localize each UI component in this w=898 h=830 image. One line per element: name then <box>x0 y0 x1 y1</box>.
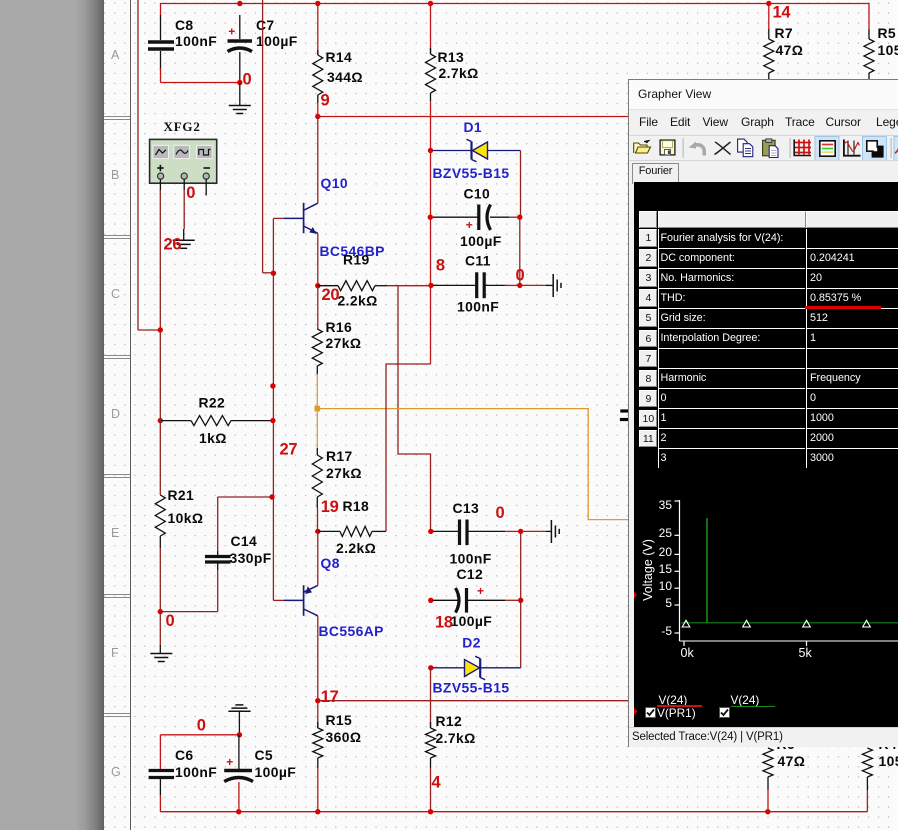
svg-text:330pF: 330pF <box>230 550 272 566</box>
resistor R21 <box>159 421 161 495</box>
svg-text:XFG2: XFG2 <box>164 119 201 134</box>
legend icon selected <box>815 136 839 160</box>
svg-text:18: 18 <box>435 614 453 632</box>
transistor Q10 <box>317 117 319 204</box>
overlap squares icon selected <box>863 136 887 160</box>
svg-text:105: 105 <box>878 42 898 58</box>
axes icon <box>844 139 861 155</box>
zener diode D1 <box>428 148 433 153</box>
svg-text:+: + <box>226 755 233 769</box>
svg-text:C14: C14 <box>231 533 258 549</box>
orange wire to grapher <box>317 409 628 520</box>
wire A R19 to C13 staircase <box>387 286 431 532</box>
capacitor C11 <box>428 283 433 288</box>
svg-text:100µF: 100µF <box>460 233 502 249</box>
svg-text:BC556AP: BC556AP <box>319 623 384 639</box>
svg-text:100nF: 100nF <box>175 764 217 780</box>
svg-text:Q10: Q10 <box>321 175 348 191</box>
svg-text:0: 0 <box>243 71 252 89</box>
junction top R14 <box>315 1 320 6</box>
svg-text:C12: C12 <box>457 566 484 582</box>
resistor R19 <box>318 285 338 287</box>
svg-text:C5: C5 <box>255 747 274 763</box>
wire R13 to D1 <box>430 101 432 151</box>
svg-text:C6: C6 <box>175 747 194 763</box>
svg-text:R15: R15 <box>326 712 353 728</box>
capacitor C8 <box>160 15 162 40</box>
junction top R7 <box>766 1 771 6</box>
XFG2 plus lead <box>159 179 161 190</box>
svg-text:BZV55-B15: BZV55-B15 <box>433 680 510 696</box>
svg-text:R7: R7 <box>775 25 794 41</box>
svg-text:R14: R14 <box>326 49 353 65</box>
svg-text:R5: R5 <box>878 25 897 41</box>
junction C7 bottom <box>237 80 242 85</box>
THD red underline <box>805 306 881 309</box>
ground right of C11 <box>520 284 546 286</box>
svg-text:+: + <box>477 584 484 598</box>
resistor R6 <box>763 748 773 777</box>
capacitor C14 <box>269 494 274 499</box>
wire C10-C11 right rail <box>519 217 521 285</box>
function generator XFG2 <box>150 139 217 183</box>
resistor R4 <box>862 748 872 777</box>
ground under C7 <box>239 83 241 106</box>
svg-text:17: 17 <box>321 688 339 706</box>
svg-text:+: + <box>466 218 473 232</box>
wire node 17 <box>315 698 320 703</box>
wire XFG plus down <box>159 190 161 421</box>
svg-text:1kΩ: 1kΩ <box>199 430 227 446</box>
grapher view window <box>628 79 898 747</box>
junction R22 right <box>270 418 275 423</box>
wire node 9 to grapher <box>318 116 628 118</box>
svg-text:27: 27 <box>280 441 298 459</box>
svg-text:0: 0 <box>186 184 195 202</box>
svg-text:105: 105 <box>879 753 898 769</box>
svg-text:BZV55-B15: BZV55-B15 <box>433 165 510 181</box>
svg-text:20: 20 <box>322 286 340 304</box>
gray desk area <box>0 0 104 830</box>
junction R19 left <box>315 283 320 288</box>
junction top C7 <box>237 1 242 6</box>
resistor R5 <box>868 29 870 39</box>
XFG2 common lead <box>183 179 185 190</box>
wire left rail x430 <box>430 151 432 365</box>
svg-text:R22: R22 <box>199 395 226 411</box>
svg-text:47Ω: 47Ω <box>778 753 806 769</box>
wire Q10 emitter to R19/R16 <box>317 233 319 285</box>
svg-text:Q8: Q8 <box>321 555 340 571</box>
junction rail R15 <box>315 809 320 814</box>
wire from top x138 <box>137 0 139 330</box>
capacitor C6 <box>159 735 161 770</box>
svg-text:+: + <box>228 24 235 38</box>
wire net 14 top rail <box>161 4 870 30</box>
grid icon <box>794 139 811 155</box>
svg-text:D2: D2 <box>462 634 481 650</box>
svg-text:2.2kΩ: 2.2kΩ <box>338 293 378 309</box>
svg-text:2.7kΩ: 2.7kΩ <box>436 730 476 746</box>
resistor R22 <box>158 418 163 423</box>
zener diode D2 <box>428 665 433 670</box>
orange wire R16 to R17 <box>316 374 318 448</box>
wire from top x263 <box>262 0 264 273</box>
svg-text:100nF: 100nF <box>175 33 217 49</box>
junction rail R12 <box>428 809 433 814</box>
junction base rail <box>271 271 276 276</box>
resistor R15 <box>317 701 319 728</box>
junction base rail 2 <box>270 383 275 388</box>
svg-text:2.2kΩ: 2.2kΩ <box>336 540 376 556</box>
transistor Q8 <box>317 531 319 585</box>
svg-text:0: 0 <box>166 612 175 630</box>
junction C5 top <box>237 732 242 737</box>
svg-text:14: 14 <box>773 4 792 22</box>
svg-text:C10: C10 <box>464 185 491 201</box>
red selected trace arrows <box>628 587 638 727</box>
wire D1 right down <box>520 151 522 218</box>
fourier results table <box>634 182 898 465</box>
svg-text:R17: R17 <box>326 448 353 464</box>
svg-text:2.7kΩ: 2.7kΩ <box>439 65 479 81</box>
svg-text:R13: R13 <box>438 49 465 65</box>
svg-text:0: 0 <box>516 266 525 284</box>
resistor R13 <box>430 4 432 55</box>
bottom rail net 0 <box>160 811 867 813</box>
wire R19 to C11 row <box>398 285 431 287</box>
svg-text:10kΩ: 10kΩ <box>168 510 204 526</box>
svg-text:9: 9 <box>321 92 330 110</box>
wire R17 to R18 <box>317 508 319 531</box>
copy icon <box>738 139 753 157</box>
wire Q10 base <box>273 217 284 219</box>
resistor R18 <box>318 530 340 532</box>
capacitor C7 <box>239 15 241 39</box>
XFG2 minus lead <box>205 179 207 195</box>
sheet border column with row letters <box>104 0 131 830</box>
junction rail C5 <box>236 809 241 814</box>
svg-text:0: 0 <box>496 504 505 522</box>
resistor R12 <box>430 668 432 728</box>
svg-text:C13: C13 <box>453 500 480 516</box>
save icon <box>660 140 675 155</box>
svg-text:19: 19 <box>321 498 339 516</box>
junction top R13 <box>428 1 433 6</box>
svg-text:R21: R21 <box>168 487 195 503</box>
svg-text:8: 8 <box>436 257 445 275</box>
junction rail R6 <box>765 809 770 814</box>
svg-text:0: 0 <box>197 717 206 735</box>
capacitor C12 <box>428 598 433 603</box>
resistor R16 <box>317 286 319 329</box>
resistor R14 <box>317 4 319 56</box>
svg-text:C7: C7 <box>256 17 275 33</box>
svg-text:100nF: 100nF <box>450 550 492 566</box>
ground right of C13 <box>521 530 546 532</box>
svg-text:100µF: 100µF <box>451 613 493 629</box>
capacitor C13 <box>428 529 433 534</box>
wire B C11 rail to R18 <box>386 364 431 531</box>
paste icon <box>763 138 778 157</box>
svg-text:360Ω: 360Ω <box>326 729 362 745</box>
junction R18 left <box>315 529 320 534</box>
chart <box>634 182 898 728</box>
ground at XFG2 <box>183 229 185 240</box>
orange junction square <box>315 406 321 412</box>
resistor R17 <box>316 448 318 455</box>
capacitor C10 <box>428 215 433 220</box>
svg-text:R16: R16 <box>326 319 353 335</box>
legend <box>634 182 898 728</box>
capacitor C5 <box>238 735 240 770</box>
svg-text:R12: R12 <box>436 713 463 729</box>
svg-text:47Ω: 47Ω <box>776 42 804 58</box>
svg-text:C8: C8 <box>175 17 194 33</box>
curve icon cut at edge <box>894 136 898 160</box>
resistor R7 <box>768 4 770 30</box>
svg-text:4: 4 <box>432 774 442 792</box>
svg-text:C11: C11 <box>465 252 491 268</box>
svg-text:27kΩ: 27kΩ <box>326 465 362 481</box>
svg-text:26: 26 <box>164 236 182 254</box>
svg-text:D1: D1 <box>464 119 483 135</box>
svg-text:R18: R18 <box>343 498 370 514</box>
wire Q8 collector to node 17 <box>317 616 319 701</box>
svg-text:344Ω: 344Ω <box>327 69 363 85</box>
wire C12-D2 right rail <box>520 600 522 668</box>
undo icon <box>689 141 705 155</box>
wire C13-C12 right rail <box>520 531 522 600</box>
svg-text:100nF: 100nF <box>457 299 499 315</box>
junction x160 <box>158 327 163 332</box>
svg-text:100µF: 100µF <box>255 764 297 780</box>
wire 0 net C6-C5 <box>160 734 239 736</box>
open icon <box>634 140 651 153</box>
svg-text:27kΩ: 27kΩ <box>326 335 362 351</box>
ground under R21 <box>159 612 161 645</box>
wire C8 bottom <box>160 68 162 83</box>
junction R21 bottom <box>158 609 163 614</box>
inverted ground above C5 <box>235 704 243 706</box>
junction node 9 <box>315 114 320 119</box>
svg-text:R19: R19 <box>343 252 370 268</box>
hidden component pins near grapher edge <box>620 409 628 412</box>
delete icon <box>715 142 731 155</box>
